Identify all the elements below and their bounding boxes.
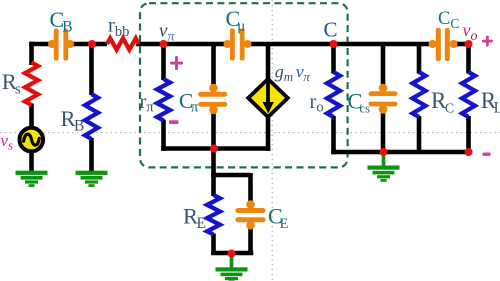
wire Ccs branch lower — [381, 112, 386, 153]
wire top rail rbb to Cmu — [136, 42, 228, 47]
wire top rail Cmu to CC — [247, 42, 433, 47]
label plus at vpi — [170, 56, 183, 70]
wire RC branch lower — [417, 116, 422, 152]
wire RB to ground — [89, 138, 94, 172]
svg-text:C: C — [324, 18, 338, 42]
ground on collector bottom rail — [368, 153, 400, 182]
capacitor CB — [48, 29, 74, 61]
wire rpi branch upper — [161, 44, 166, 80]
wire Cpi branch lower — [211, 112, 216, 150]
node RE CE bottom junction — [228, 250, 236, 258]
wire CE upper — [248, 173, 253, 203]
wire RL branch lower — [466, 116, 471, 154]
node vpi junction — [160, 40, 168, 48]
voltage source vs — [20, 128, 44, 152]
node RL bottom junction — [465, 148, 473, 156]
capacitor CC — [429, 28, 458, 61]
wire gm source branch lower — [266, 116, 271, 151]
capacitor Ccs — [369, 84, 398, 114]
capacitor CE — [235, 200, 265, 229]
node junction at RB — [88, 40, 96, 48]
controlled current source gm*vpi — [248, 79, 288, 117]
resistor ro — [327, 72, 340, 117]
wire collector side bottom rail — [331, 150, 471, 155]
wire ro branch lower — [331, 116, 336, 154]
node emitter junction — [210, 145, 218, 153]
wire Cpi branch upper — [211, 44, 216, 86]
wire vs to ground — [29, 150, 34, 172]
resistor RC — [413, 72, 426, 117]
wire emitter node down to RE CE — [214, 149, 251, 176]
wire rpi branch lower — [161, 120, 166, 151]
wire RB branch upper — [89, 44, 94, 95]
wire Ccs branch upper — [381, 44, 386, 86]
resistor RE — [207, 195, 220, 235]
wire CE lower — [248, 227, 253, 255]
label minus at rpi — [169, 120, 179, 124]
wire top rail left segment — [29, 42, 51, 47]
ground under vs — [16, 171, 48, 187]
resistor rpi — [157, 79, 170, 121]
wire top rail CC to vo — [453, 42, 469, 47]
wire RE CE bottom rail — [211, 251, 253, 256]
resistor Rs — [25, 63, 38, 106]
wire top rail CB to rbb — [71, 42, 107, 47]
node ground junction collector rail — [380, 148, 388, 156]
wire Rs to source vs — [29, 104, 34, 130]
wire RE lower — [211, 234, 216, 256]
resistor RL — [462, 72, 475, 117]
wire ro branch upper — [331, 44, 336, 74]
capacitor Cmu — [224, 29, 252, 61]
ground under RB — [76, 171, 108, 187]
transistor hybrid-pi model boundary box — [140, 3, 348, 167]
resistor rbb — [107, 38, 139, 49]
resistor RB — [85, 94, 98, 139]
label plus at vo — [482, 36, 493, 47]
wire RL branch upper — [466, 42, 471, 74]
wire Rs branch upper — [29, 42, 34, 65]
capacitor Cpi — [198, 84, 227, 114]
wire gm source branch upper — [266, 44, 271, 80]
wire RE upper — [211, 173, 216, 196]
ground under RE CE — [216, 255, 248, 281]
label minus at collector rail — [483, 153, 491, 156]
wire emitter bottom rail — [161, 146, 270, 151]
node vo junction — [465, 40, 473, 48]
wire RC branch upper — [417, 44, 422, 74]
node C junction — [330, 40, 338, 48]
